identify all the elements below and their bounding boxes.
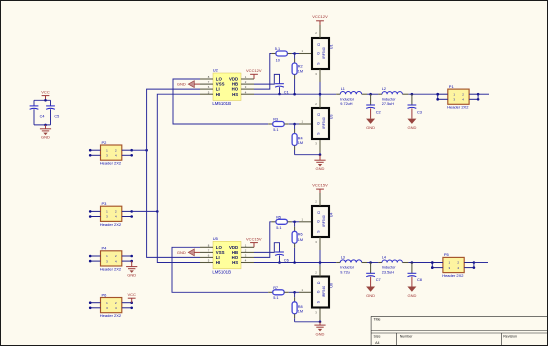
transistor U1 IRF540 [312, 38, 334, 69]
svg-text:C1: C1 [284, 89, 289, 94]
svg-text:5.1: 5.1 [275, 47, 280, 51]
svg-text:G: G [316, 290, 320, 293]
pin 2 [315, 25, 320, 38]
pin 1 [299, 120, 312, 124]
title block [371, 316, 547, 345]
wire [34, 124, 51, 126]
node phase junction [319, 261, 322, 264]
wire [50, 109, 52, 125]
pin 3 [315, 140, 320, 153]
svg-text:Header 2X2: Header 2X2 [442, 273, 464, 278]
svg-text:LM5101B: LM5101B [212, 269, 231, 274]
capacitor C2 [366, 94, 380, 114]
connector P6 [89, 292, 133, 318]
wire [408, 262, 432, 264]
wire [367, 93, 378, 95]
wire [254, 262, 336, 264]
svg-text:L4: L4 [382, 255, 386, 259]
svg-text:VCC12V: VCC12V [312, 14, 328, 19]
svg-text:R3: R3 [273, 118, 278, 122]
svg-text:C4: C4 [40, 115, 45, 119]
svg-text:C7: C7 [376, 277, 381, 282]
resistor R6 [292, 222, 303, 263]
transistor U4 IRF540 [312, 206, 334, 237]
wire [295, 291, 299, 293]
wire [289, 291, 295, 293]
svg-text:GND: GND [316, 166, 325, 171]
svg-text:GND: GND [177, 82, 186, 87]
pin 3 [315, 237, 320, 250]
node gate1 junction [293, 52, 296, 55]
svg-text:GND: GND [177, 250, 186, 255]
svg-text:C5: C5 [54, 115, 59, 119]
pin 1 [299, 218, 312, 222]
power VCC12V [246, 68, 262, 79]
wire [295, 53, 299, 55]
svg-text:U4: U4 [330, 212, 334, 217]
ground [314, 155, 325, 172]
svg-text:HI: HI [216, 92, 220, 97]
svg-text:A4: A4 [375, 341, 379, 345]
wire [478, 94, 489, 99]
node C3 junction [411, 93, 414, 96]
ground [407, 108, 416, 130]
svg-text:GND: GND [316, 332, 325, 337]
node C2 junction [369, 93, 372, 96]
svg-text:1M: 1M [298, 309, 303, 313]
capacitor C1 [275, 84, 289, 95]
pin 2 [315, 193, 320, 206]
wire [173, 79, 268, 124]
pin 3 [315, 69, 320, 82]
pin 2 [315, 266, 320, 277]
svg-text:P5: P5 [444, 252, 450, 257]
capacitor C5 [46, 106, 59, 119]
wire [132, 210, 158, 212]
capacitor C4 [30, 106, 45, 119]
connector P5 [431, 252, 475, 278]
svg-text:23.5uH: 23.5uH [382, 270, 395, 274]
capacitor C3 [408, 94, 422, 114]
svg-text:9.72uH: 9.72uH [340, 102, 353, 106]
node source junction [319, 153, 322, 156]
svg-text:R7: R7 [273, 286, 278, 290]
wire [157, 94, 200, 262]
svg-text:Header 2X2: Header 2X2 [100, 313, 122, 318]
wire [254, 74, 280, 84]
connector P3 [89, 201, 133, 227]
node R2 junction [293, 93, 296, 96]
svg-text:IRF540: IRF540 [322, 286, 326, 298]
pin 2 [315, 97, 320, 108]
resistor R7 [268, 286, 289, 300]
svg-text:C2: C2 [376, 109, 381, 114]
svg-text:Inductor: Inductor [340, 266, 354, 270]
ground [40, 125, 51, 140]
ground [314, 322, 325, 337]
wire [289, 123, 295, 125]
svg-text:GND: GND [407, 293, 416, 298]
wire [431, 263, 433, 268]
wire [279, 87, 281, 94]
node VCC rail junction [44, 99, 47, 102]
wire [254, 93, 336, 95]
svg-text:VCC12V: VCC12V [246, 68, 262, 73]
svg-text:IRF540: IRF540 [322, 117, 326, 129]
node GND rail junction [44, 124, 47, 127]
svg-text:D: D [317, 281, 321, 284]
svg-text:Number: Number [400, 335, 414, 339]
connector P4 [89, 246, 133, 272]
resistor R2 [292, 54, 303, 95]
ground [366, 277, 375, 298]
svg-text:IRF540: IRF540 [322, 47, 326, 59]
transistor U3 IRF540 [312, 108, 334, 139]
svg-text:C8: C8 [417, 277, 422, 282]
svg-text:P2: P2 [102, 140, 108, 145]
op-amp U5 gate driver LM5101B [200, 236, 254, 274]
svg-text:D: D [317, 113, 321, 116]
svg-text:GND: GND [407, 125, 416, 130]
inductor L1 [336, 87, 367, 106]
svg-text:C3: C3 [417, 109, 422, 114]
svg-text:Header 2X2: Header 2X2 [100, 266, 122, 271]
svg-text:P4: P4 [102, 246, 108, 251]
wire [279, 255, 281, 262]
svg-text:GND: GND [366, 125, 375, 130]
wire [254, 243, 280, 253]
svg-text:GND: GND [41, 135, 50, 140]
svg-text:L2: L2 [382, 87, 386, 91]
node source junction [319, 321, 322, 324]
svg-text:GND: GND [127, 273, 136, 278]
svg-text:GND: GND [366, 293, 375, 298]
ground [407, 277, 416, 298]
svg-text:Inductor: Inductor [382, 97, 396, 101]
svg-text:R8: R8 [298, 305, 303, 309]
resistor R5 [271, 215, 292, 230]
power VCC12V [312, 14, 328, 25]
svg-text:Revision: Revision [503, 335, 517, 339]
wire [408, 93, 437, 95]
svg-text:U6: U6 [330, 283, 334, 288]
wire [319, 320, 321, 322]
wire [292, 221, 295, 223]
wire [34, 99, 51, 101]
svg-text:HS: HS [232, 260, 238, 265]
node C7 junction [369, 261, 372, 264]
capacitor C6 [275, 252, 289, 263]
svg-text:5.1: 5.1 [273, 296, 278, 300]
wire [292, 53, 295, 55]
svg-text:U3: U3 [330, 114, 334, 119]
resistor R1 [271, 47, 292, 63]
ground [366, 108, 375, 130]
svg-text:Size: Size [374, 335, 381, 339]
connector P2 [89, 140, 133, 166]
svg-text:P1: P1 [449, 84, 455, 89]
ground [177, 81, 200, 88]
wire [295, 221, 299, 223]
wire [33, 100, 35, 106]
svg-text:5.1: 5.1 [273, 128, 278, 132]
svg-text:R2: R2 [298, 64, 303, 68]
svg-text:IRF540: IRF540 [322, 215, 326, 227]
svg-text:U2: U2 [213, 68, 219, 73]
wire [254, 54, 271, 90]
wire [172, 247, 268, 292]
node gate3 junction [293, 221, 296, 224]
svg-text:Header 2X2: Header 2X2 [100, 222, 122, 227]
wire [295, 154, 320, 156]
svg-text:R6: R6 [298, 233, 303, 237]
svg-text:HS: HS [232, 92, 238, 97]
wire [474, 263, 488, 268]
wire [319, 263, 321, 266]
svg-text:10: 10 [276, 58, 280, 62]
svg-text:VCC15V: VCC15V [246, 237, 262, 242]
svg-text:Title: Title [374, 318, 381, 322]
resistor R3 [268, 118, 289, 132]
wire [33, 109, 35, 125]
svg-text:Inductor: Inductor [382, 266, 396, 270]
svg-text:D: D [317, 211, 321, 214]
node C1 junction [278, 93, 281, 96]
pin 1 [299, 288, 312, 292]
svg-text:Inductor: Inductor [340, 97, 354, 101]
svg-text:VCC: VCC [127, 292, 136, 297]
wire [254, 222, 271, 258]
svg-text:G: G [316, 52, 320, 55]
svg-text:VCC15V: VCC15V [312, 182, 328, 187]
wire [295, 123, 299, 125]
capacitor C7 [366, 263, 380, 283]
node C6 junction [278, 261, 281, 264]
node P3-HI junction [156, 210, 159, 213]
ground [177, 249, 200, 256]
inductor L3 [336, 255, 367, 274]
wire [147, 89, 200, 257]
svg-text:U1: U1 [330, 44, 334, 49]
op-amp U2 gate driver LM5101B [200, 68, 254, 106]
svg-text:Header 2X2: Header 2X2 [100, 161, 122, 166]
svg-text:R5: R5 [276, 215, 281, 219]
power VCC15V [246, 237, 262, 248]
wire [319, 94, 321, 97]
svg-text:R4: R4 [298, 137, 303, 141]
svg-text:LM5101B: LM5101B [212, 101, 231, 106]
node R6 junction [293, 261, 296, 264]
wire [437, 94, 439, 99]
power VCC [41, 89, 50, 100]
wire [50, 100, 52, 106]
node gate2 junction [293, 123, 296, 126]
wire [367, 262, 378, 264]
svg-text:Header 2X2: Header 2X2 [447, 105, 469, 110]
svg-text:VCC: VCC [41, 89, 50, 94]
node P5 left pins [431, 261, 434, 269]
svg-text:L1: L1 [341, 87, 345, 91]
wire [295, 321, 320, 323]
wire [319, 153, 321, 155]
power VCC [127, 292, 136, 303]
wire [319, 82, 321, 94]
svg-text:G: G [316, 220, 320, 223]
transistor U6 IRF540 [312, 277, 334, 308]
node P1 left pins [436, 93, 439, 101]
wire [132, 149, 147, 151]
svg-text:1M: 1M [298, 238, 303, 242]
wire [319, 250, 321, 263]
node gate4 junction [293, 291, 296, 294]
node phase junction [319, 93, 322, 96]
connector P1 [436, 84, 479, 110]
node C8 junction [411, 261, 414, 264]
power VCC15V [312, 182, 328, 193]
ground [126, 261, 137, 278]
pin 1 [299, 49, 312, 53]
svg-text:L3: L3 [341, 255, 345, 259]
resistor R8 [292, 292, 303, 322]
svg-text:5.1: 5.1 [276, 226, 281, 230]
svg-text:C6: C6 [284, 258, 289, 263]
svg-text:P3: P3 [102, 201, 108, 206]
svg-text:U5: U5 [213, 236, 219, 241]
svg-text:HI: HI [216, 260, 220, 265]
svg-text:1M: 1M [298, 70, 303, 74]
svg-text:D: D [317, 43, 321, 46]
inductor L4 [378, 255, 408, 274]
svg-text:27.5uH: 27.5uH [382, 102, 395, 106]
svg-text:9.72u: 9.72u [340, 270, 350, 274]
svg-text:1M: 1M [298, 141, 303, 145]
svg-text:P6: P6 [102, 292, 108, 297]
capacitor C8 [408, 263, 422, 283]
resistor R4 [292, 124, 303, 155]
pin 3 [315, 309, 320, 321]
node P2-LI junction [145, 149, 148, 152]
svg-text:G: G [316, 122, 320, 125]
inductor L2 [378, 87, 408, 106]
